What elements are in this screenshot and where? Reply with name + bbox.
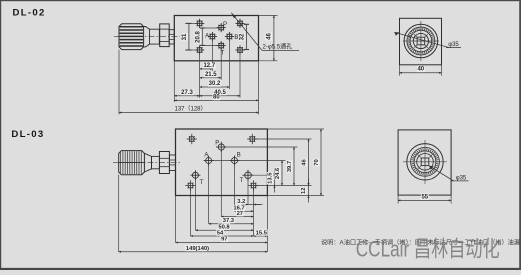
svg-text:80: 80	[213, 95, 220, 101]
svg-text:12: 12	[301, 188, 307, 194]
svg-text:13.5: 13.5	[268, 172, 274, 184]
svg-text:46: 46	[302, 159, 308, 166]
svg-text:27: 27	[237, 211, 243, 217]
svg-text:30.2: 30.2	[209, 81, 221, 87]
svg-text:21.5: 21.5	[205, 72, 217, 78]
svg-text:12.7: 12.7	[203, 63, 215, 69]
svg-text:97: 97	[221, 237, 227, 243]
svg-text:15.5: 15.5	[256, 230, 268, 236]
svg-text:B: B	[234, 35, 238, 41]
svg-text:24.6: 24.6	[275, 167, 281, 179]
svg-text:31: 31	[182, 33, 188, 40]
svg-text:37.3: 37.3	[223, 218, 235, 224]
svg-text:137（128）: 137（128）	[174, 105, 206, 112]
svg-text:32: 32	[240, 33, 246, 40]
svg-text:54: 54	[217, 230, 224, 236]
svg-text:P: P	[215, 140, 219, 146]
svg-text:A: A	[204, 152, 208, 158]
svg-text:T: T	[240, 178, 244, 184]
svg-text:3.2: 3.2	[237, 199, 245, 205]
svg-text:φ35: φ35	[456, 175, 467, 181]
svg-text:φ35: φ35	[448, 42, 459, 48]
svg-text:B: B	[237, 153, 241, 159]
svg-text:46: 46	[267, 33, 273, 40]
svg-text:39.7: 39.7	[287, 161, 293, 172]
svg-text:70: 70	[314, 159, 320, 165]
svg-text:40: 40	[417, 67, 424, 73]
svg-text:A: A	[205, 33, 209, 39]
svg-text:DL-03: DL-03	[11, 129, 44, 140]
svg-text:27.3: 27.3	[181, 90, 193, 96]
svg-text:55: 55	[421, 194, 428, 200]
svg-text:2-φ5.5通孔: 2-φ5.5通孔	[263, 43, 293, 51]
svg-text:CCLair 昌林自动化: CCLair 昌林自动化	[356, 237, 500, 262]
svg-text:T: T	[200, 180, 204, 186]
svg-text:P: P	[223, 22, 227, 28]
svg-text:149(140): 149(140)	[186, 246, 209, 252]
svg-text:20.8: 20.8	[196, 31, 202, 43]
svg-text:DL-02: DL-02	[13, 8, 46, 19]
